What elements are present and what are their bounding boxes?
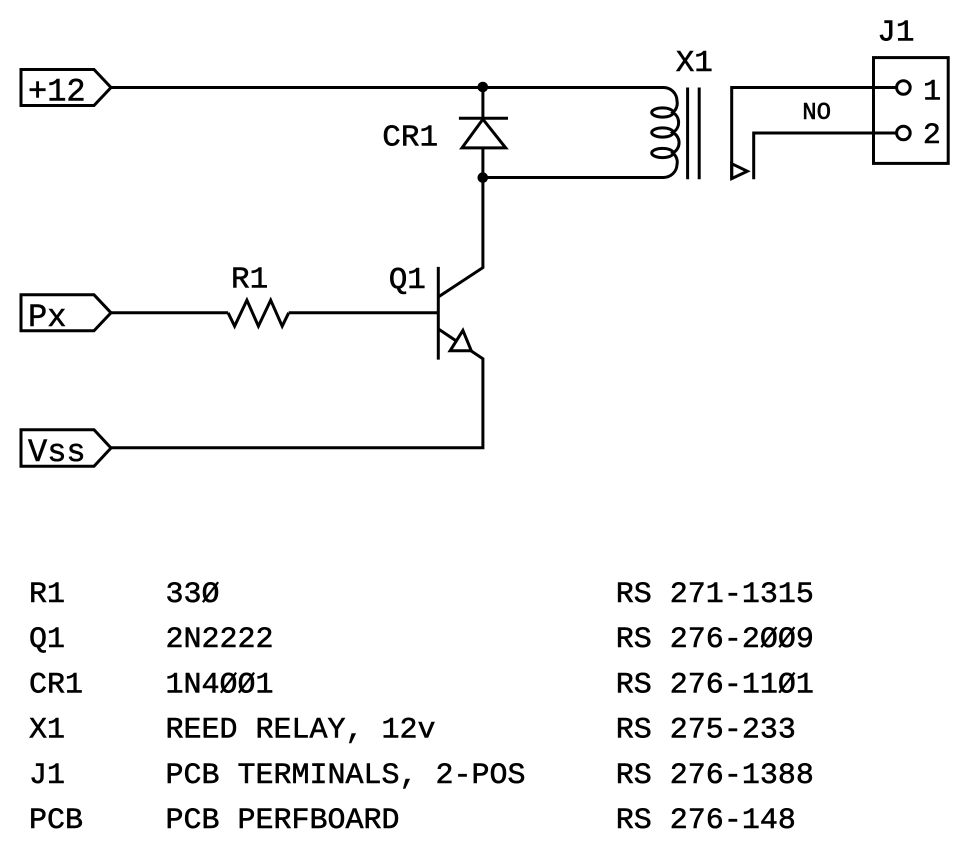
- coil loop 2: [652, 128, 674, 137]
- svg-text:NO: NO: [802, 100, 831, 127]
- svg-text:PCB: PCB: [29, 804, 83, 838]
- svg-text:33Ø: 33Ø: [166, 578, 220, 612]
- svg-text:Q1: Q1: [389, 263, 426, 298]
- svg-text:2N2222: 2N2222: [166, 623, 274, 657]
- wire R1 to Q1 base: [289, 311, 439, 314]
- svg-text:PCB PERFBOARD: PCB PERFBOARD: [166, 804, 400, 838]
- diode CR1: [459, 88, 508, 178]
- coil loop 3: [652, 148, 674, 157]
- svg-text:REED RELAY, 12v: REED RELAY, 12v: [166, 714, 436, 748]
- net flag Px: [21, 295, 111, 331]
- svg-text:2: 2: [923, 119, 941, 153]
- wire node B to coil bottom: [483, 176, 664, 179]
- J1 pin 1 circle: [897, 81, 911, 95]
- svg-text:RS 276-2ØØ9: RS 276-2ØØ9: [616, 623, 814, 657]
- svg-text:PCB TERMINALS, 2-POS: PCB TERMINALS, 2-POS: [166, 759, 526, 793]
- transistor Q1 base bar: [437, 267, 440, 360]
- svg-text:RS 271-1315: RS 271-1315: [616, 578, 814, 612]
- svg-text:RS 276-1388: RS 276-1388: [616, 759, 814, 793]
- wire Px to R1: [111, 311, 228, 314]
- wire +12 rail: [111, 86, 664, 89]
- transistor Q1 emitter: [111, 329, 483, 447]
- svg-text:X1: X1: [676, 46, 713, 81]
- svg-text:Px: Px: [28, 299, 66, 336]
- node B junction (CR1 / coil / collector): [478, 172, 489, 183]
- svg-text:Vss: Vss: [28, 434, 86, 471]
- relay contact 2 wire (to J1 pin 2): [754, 133, 897, 179]
- svg-text:Q1: Q1: [29, 623, 65, 657]
- relay coil X1: [664, 88, 680, 178]
- relay X1 reed bar 2: [698, 88, 701, 180]
- svg-text:X1: X1: [29, 714, 65, 748]
- svg-text:+12: +12: [28, 73, 86, 110]
- transistor Q1 collector (to node B): [439, 177, 483, 297]
- svg-text:CR1: CR1: [382, 121, 438, 156]
- svg-text:J1: J1: [29, 759, 65, 793]
- svg-text:RS 276-148: RS 276-148: [616, 804, 796, 838]
- net flag Vss: [21, 430, 111, 467]
- node A junction (+12 / CR1 / coil): [478, 82, 489, 93]
- svg-text:R1: R1: [29, 578, 65, 612]
- parts list row 1: R1 330 RS 271-1315: [29, 578, 814, 838]
- relay X1 reed bar 1: [686, 88, 689, 180]
- resistor R1: [228, 300, 289, 326]
- svg-text:R1: R1: [231, 262, 268, 297]
- svg-text:CR1: CR1: [29, 668, 83, 702]
- coil loop 1: [652, 108, 674, 117]
- relay contact 1 wire (to J1 pin 1): [732, 88, 897, 180]
- net flag +12: [21, 70, 111, 106]
- transistor Q1 emitter arrow: [450, 330, 471, 350]
- svg-text:1N4ØØ1: 1N4ØØ1: [166, 668, 274, 702]
- svg-text:J1: J1: [877, 15, 914, 50]
- svg-text:1: 1: [923, 75, 941, 109]
- svg-text:RS 276-11Ø1: RS 276-11Ø1: [616, 668, 814, 702]
- relay contact 1 arrow: [732, 164, 748, 179]
- J1 pin 2 circle: [897, 126, 911, 140]
- svg-text:RS 275-233: RS 275-233: [616, 714, 796, 748]
- connector J1 box: [874, 58, 949, 164]
